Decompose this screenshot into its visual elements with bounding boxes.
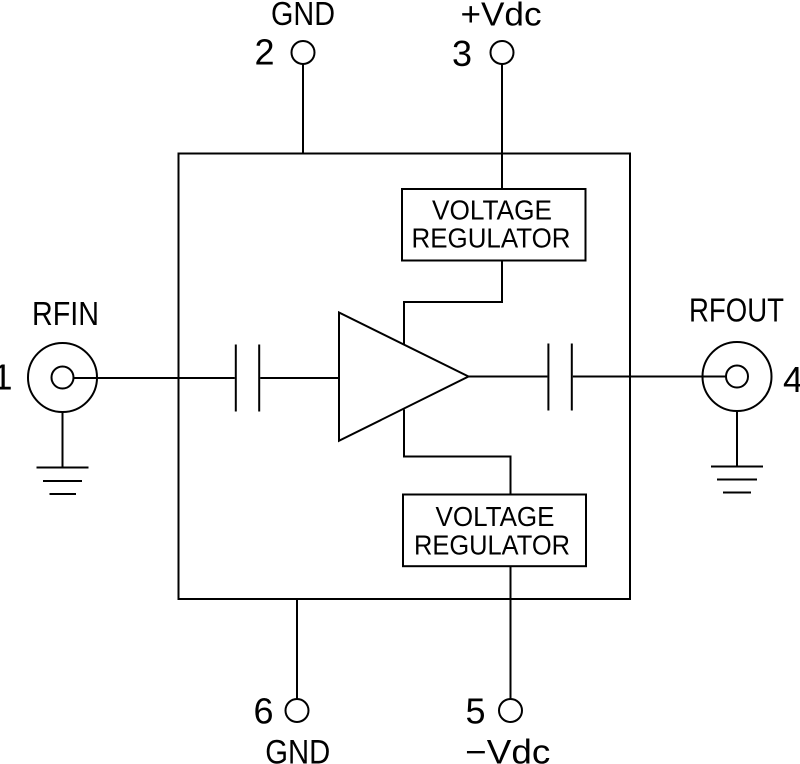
wire amplifier to regulator U2 [404, 410, 511, 495]
wire C2 to RFOUT [573, 376, 726, 378]
pin 5 terminal [499, 699, 522, 722]
svg-text:6: 6 [253, 691, 273, 732]
wire amplifier to capacitor C2 [469, 376, 548, 378]
ground bars at RFIN [37, 467, 89, 469]
svg-text:GND: GND [271, 0, 335, 32]
capacitor C1 plates [235, 345, 237, 412]
module outline box [179, 154, 631, 600]
RFOUT connector J2 inner [726, 366, 748, 388]
svg-text:1: 1 [0, 357, 13, 398]
ground bars at RFOUT [711, 466, 763, 468]
svg-text:5: 5 [465, 691, 485, 732]
pin 3 terminal [491, 41, 514, 64]
ground stem at RFOUT [736, 411, 738, 467]
voltage regulator U2 box [403, 495, 586, 567]
voltage regulator U1 box [402, 189, 586, 261]
svg-text:+Vdc: +Vdc [461, 0, 542, 33]
svg-text:RFIN: RFIN [32, 295, 99, 332]
svg-text:GND: GND [265, 734, 330, 764]
svg-text:REGULATOR: REGULATOR [412, 223, 571, 254]
RFIN connector J1 inner [52, 367, 74, 389]
capacitor C2 plates [547, 344, 549, 411]
wire RFIN to capacitor C1 [74, 377, 235, 379]
wire U1 to amplifier input bias [404, 261, 502, 345]
svg-text:REGULATOR: REGULATOR [414, 530, 570, 561]
op-amp A1 triangle [339, 313, 469, 441]
RFIN connector J1 outer [28, 343, 97, 412]
pin 6 terminal [286, 699, 309, 722]
wire pin 2 to box top [302, 64, 304, 154]
wire C1 to amplifier [260, 377, 339, 379]
svg-text:3: 3 [452, 33, 472, 74]
RFOUT connector J2 outer [703, 342, 772, 411]
wire U2 to pin 5 [510, 566, 512, 699]
svg-text:−Vdc: −Vdc [465, 734, 550, 764]
svg-text:VOLTAGE: VOLTAGE [436, 501, 555, 532]
svg-text:4: 4 [783, 359, 800, 400]
wire box bottom to pin 6 [296, 599, 298, 699]
wire pin 3 to regulator U1 [501, 64, 503, 190]
svg-text:2: 2 [254, 32, 274, 73]
pin 2 terminal [292, 41, 315, 64]
svg-text:RFOUT: RFOUT [689, 292, 784, 329]
ground stem at RFIN [62, 412, 64, 468]
svg-text:VOLTAGE: VOLTAGE [432, 195, 552, 226]
